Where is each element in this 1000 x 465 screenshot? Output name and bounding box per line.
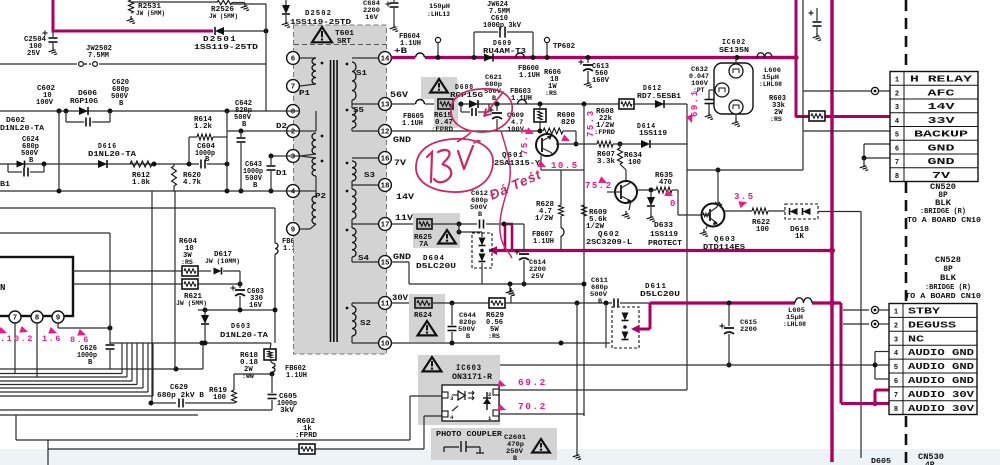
ground under R2531 [130,16,132,20]
svg-text:BLK: BLK [935,199,951,208]
svg-text:1: 1 [895,77,899,85]
svg-text:25V: 25V [531,273,545,281]
wire x=584 long vertical [583,104,585,416]
svg-text:JW (5MM): JW (5MM) [176,300,207,307]
capacitor C605 [271,374,273,393]
svg-text:820: 820 [561,119,575,127]
svg-text:5: 5 [895,132,899,140]
resistor R2531 (jumper) [129,0,134,13]
svg-text:JW (5MM): JW (5MM) [209,13,238,20]
svg-text:8.6: 8.6 [70,335,90,345]
svg-text:GND: GND [393,253,411,262]
photocoupler IC603 body [442,385,499,421]
pin 12 [379,125,392,138]
svg-text:T601: T601 [335,30,355,38]
svg-text:14V: 14V [928,101,956,112]
svg-text:B: B [466,333,470,341]
svg-text::LHL13: :LHL13 [427,11,450,19]
wire rail y=111 (D602 net to transformer pin 8) [0,110,286,112]
svg-text:69.2: 69.2 [518,377,547,388]
svg-text:S2: S2 [360,320,372,328]
wire rail y=233 [0,232,110,234]
svg-text:D2501: D2501 [203,36,237,44]
svg-text:TP602: TP602 [553,43,575,51]
warning triangle IC603 [423,357,442,371]
terminal DEGUSS [843,323,869,325]
svg-text:9: 9 [291,227,295,235]
open test terminal near FB604 [435,37,440,42]
gray box R615 [434,97,458,128]
wire rail y=131 (D2 winding net to pin 2) [227,130,286,132]
svg-text:CN528: CN528 [935,256,961,265]
GND rail y=131 from pin 12 [392,130,541,132]
capacitor C2504 [42,32,47,34]
capacitor C614 [514,251,519,253]
svg-text:AUDIO 30V: AUDIO 30V [908,403,975,414]
ground at R2526 [244,3,246,7]
gray box IC603 [418,355,500,425]
svg-text::LHL08: :LHL08 [783,321,806,328]
inductor FB607 [561,228,564,236]
svg-text:Q602: Q602 [598,231,620,239]
diode pair D611 [605,303,607,348]
svg-text:2: 2 [894,322,898,330]
warning triangle in T601 [312,27,332,42]
handwritten arrow inside lasso [484,92,503,116]
svg-text:1SS119: 1SS119 [650,231,678,239]
connector CN520 table [890,72,978,182]
wire rail y=208 [0,207,275,209]
annotation flags under IC pins [0,327,8,337]
svg-text:P2: P2 [315,193,327,201]
svg-text:B: B [598,298,602,306]
ground stub above 30V rail [510,296,512,303]
svg-text:1.1UH: 1.1UH [533,238,554,246]
resistor R624 fusible [415,298,432,308]
56V rail wire y=104 [392,103,416,105]
svg-text:Q603: Q603 [714,236,736,244]
inductor FB602 [272,363,275,372]
annotation 10.5 [537,160,547,170]
svg-text:AUDIO GND: AUDIO GND [908,361,975,372]
svg-text:2: 2 [895,90,899,98]
wire rail y=191 (B1 net, to transformer pin 4) [0,190,286,192]
svg-text:7: 7 [895,159,899,167]
magenta vertical x=832 (main protect rail) [830,0,833,462]
11V rail wire y=224 [392,223,418,225]
resistor R604 [73,270,182,272]
transformer T601 body [294,25,387,354]
warning triangle R624 [418,321,437,335]
gray box PHOTO COUPLER [431,428,557,460]
wire from R635 down to Q603 base [677,190,679,215]
wire x=861 vertical to bottom [860,212,862,459]
resistor R614 with C604 parallel bracket [189,136,197,138]
R628 column x=561 [560,170,562,205]
pin 9 of left IC [52,311,64,323]
wire R625 to C612 [432,223,477,225]
annotation 70.2 [497,404,507,414]
pin 6 [287,52,300,65]
wire rail y=343 (to D603 area) [110,342,271,344]
svg-text:8: 8 [291,109,296,117]
wire y=374 R619 top to FB602 column [234,373,272,375]
wire rail y=415 [0,414,198,416]
svg-text:1.1UH: 1.1UH [286,372,307,380]
svg-text:13: 13 [381,102,390,110]
capacitor C621 bracket under D608 [460,104,462,112]
pin 10 [379,337,392,350]
svg-text:S1: S1 [356,70,368,78]
svg-text:S5: S5 [353,107,365,115]
terminal STBY [843,309,869,311]
resistor R602 [299,444,315,454]
resistor R608 box on 56V rail [619,99,634,109]
svg-text:B: B [242,121,247,129]
svg-text:D2502: D2502 [305,10,332,18]
svg-text:4: 4 [895,118,899,126]
svg-text:2200: 2200 [740,326,757,334]
svg-text:B: B [513,455,517,463]
pin 18 [379,179,392,192]
wire vertical x=266 to pin8 rail [265,31,267,111]
svg-text:8: 8 [895,173,899,181]
wire y=190 R635 rail [636,189,656,191]
pin 3 [287,150,300,163]
secondary S1 [352,57,379,59]
pin 11 [379,297,392,310]
capacitor C644 [451,303,453,325]
wire D2501 cathode to junction [224,30,266,32]
wire D618 to x=861 vertical [818,211,861,213]
svg-text:8: 8 [894,406,898,414]
wire BACKUP horizontal y=170 [687,169,803,171]
svg-text:D602: D602 [6,117,25,125]
wire rail y=440 bottom-left [15,415,17,440]
wire vertical x=152 [151,191,153,403]
svg-text:B: B [478,211,482,219]
svg-text:D603: D603 [231,323,251,331]
svg-text:AUDIO GND: AUDIO GND [908,375,975,386]
svg-text:BLK: BLK [940,274,956,283]
wire vertical x=59 [58,111,60,191]
svg-text:D1NL20-TA: D1NL20-TA [0,125,45,133]
handwritten tail to Da Test [500,131,512,258]
diode D2502 [285,0,287,6]
transistor Q603 digital [702,204,725,227]
annotation 0 [664,189,674,199]
magenta riser x=505/512 to C612 node [504,224,507,251]
svg-text:B: B [253,182,258,190]
wire x=687 long vertical [686,104,688,390]
svg-text:2SC3209-L: 2SC3209-L [586,239,632,247]
capacitor C624 bracket [7,164,9,172]
svg-text:3kV: 3kV [280,407,295,415]
svg-text:3.5: 3.5 [734,192,755,202]
svg-text:RGP10G: RGP10G [70,98,98,106]
svg-text:D616: D616 [98,143,117,151]
winding D1 [300,156,316,158]
wire bus bundle lower-left [0,373,122,375]
svg-text:TO A BOARD CN10: TO A BOARD CN10 [905,293,981,301]
thin vertical x=803 AFC feed [802,0,804,131]
svg-text:4.7k: 4.7k [183,179,202,187]
annotation 69.2 [497,380,507,390]
svg-text:1/2W: 1/2W [586,223,605,231]
svg-text:GND: GND [928,142,956,153]
svg-text:7V: 7V [932,170,951,181]
Q602 emitter to ground [629,201,631,210]
svg-text:P1: P1 [299,90,311,98]
svg-text:6: 6 [291,56,296,64]
svg-text:4P: 4P [925,461,935,465]
svg-text:7.5MM: 7.5MM [88,52,109,60]
svg-text:B: B [119,100,124,108]
wire x=584 corner at pin1 [583,414,585,416]
capacitor C604 [200,160,202,169]
svg-text:1SS119-25TD: 1SS119-25TD [194,44,259,52]
resistor R620 [172,166,177,186]
svg-text:1: 1 [894,309,898,317]
capacitor C612 [479,220,481,229]
junction on 56V rail x=584 [582,102,587,107]
diode D617 [198,270,211,272]
svg-text:14V: 14V [396,192,415,202]
Q603 collector to backup rail [717,204,718,207]
svg-text:9: 9 [56,315,60,323]
resistor R615 fusible [438,99,453,109]
secondary S5 [352,108,356,128]
wire R2526 to ground [232,2,245,4]
bottom board-edge tint strip [0,449,1000,465]
IC box (left, partially cut) [0,257,73,316]
svg-text:12: 12 [381,129,390,137]
Q603 emitter ground [706,224,708,229]
wire pin 3 net with C643 [271,155,286,157]
pin 7 of left IC [9,311,21,323]
svg-text::PT: :PT [693,87,705,94]
svg-text:70.2: 70.2 [518,401,547,412]
svg-text:11V: 11V [395,213,414,223]
svg-text:NC: NC [908,333,925,344]
svg-text:4: 4 [894,350,898,358]
svg-text:JW (10MM): JW (10MM) [205,258,240,265]
svg-text:1/2W: 1/2W [535,215,554,223]
svg-text:14: 14 [381,56,390,64]
svg-text:SE135N: SE135N [719,47,749,55]
pin 13 [379,98,392,111]
inductor FB601 on vertical x=275 [274,208,276,243]
svg-text:D606: D606 [78,90,97,98]
svg-text:16V: 16V [249,302,263,310]
svg-text:6: 6 [895,145,899,153]
wire AFC row [803,90,890,92]
svg-text:160V: 160V [592,77,610,85]
Q601 emitter to y=170 wire [540,156,542,170]
winding P2 [300,228,310,230]
svg-text:5: 5 [894,364,898,372]
svg-text::RS: :RS [770,116,782,123]
photocoupler LED [452,394,458,396]
svg-text:100: 100 [628,159,641,167]
svg-text:15: 15 [381,260,390,268]
wire y=310 D603 anode rail [198,309,275,311]
svg-text:AFC: AFC [928,87,956,98]
resistor R625 fusible [417,219,432,229]
pin 16 [379,152,392,165]
junction dot protect rail [829,248,835,254]
svg-text:7V: 7V [394,158,407,168]
svg-text:7A: 7A [419,241,429,249]
magenta trace from top-left to D2501 [52,0,55,31]
capacitor C2601 drawing [443,447,445,452]
svg-text:7: 7 [894,392,898,400]
resistor R606 box on x=540 [534,109,546,122]
handwritten 13V circle [416,139,493,192]
wire vertical x=174 R620 column [173,164,175,166]
capacitor C610 bracket over D609 [473,32,475,58]
diode pair D618 [785,204,818,219]
svg-text:B: B [205,156,210,164]
svg-text:16V: 16V [365,14,379,22]
capacitor C632 [709,89,715,91]
svg-text:100: 100 [213,394,226,402]
svg-text:3: 3 [291,154,296,162]
svg-text::FPRD: :FPRD [295,432,318,440]
svg-text::FPRD: :FPRD [431,126,453,133]
resistor R619 [232,390,237,403]
junction dots on B+ rail [436,55,441,60]
svg-text:470: 470 [659,179,672,187]
IC602 ground leg [735,114,737,119]
wire hop FB600 on B+ [516,53,525,58]
svg-text:1.1UH: 1.1UH [400,40,421,48]
svg-text:ON3171-R: ON3171-R [452,373,492,382]
svg-text:C629: C629 [170,384,188,392]
svg-text:IC602: IC602 [722,39,746,47]
wire R2531 to R2526 [131,1,217,3]
magenta PROTECT trace y=250.5 [489,249,832,252]
secondary S4 [352,228,356,257]
svg-text:100V: 100V [36,99,54,107]
pin 7 [287,80,300,93]
svg-text:0: 0 [670,199,677,209]
svg-text:AUDIO GND: AUDIO GND [908,347,975,358]
wire junction up to top [265,4,267,31]
svg-text::BRIDGE (R): :BRIDGE (R) [920,208,966,216]
svg-text:B1: B1 [0,181,11,189]
handwritten lasso around D608 [451,89,512,132]
svg-text:B: B [88,359,93,367]
resistor R634 [619,144,621,148]
svg-text:1.1UH: 1.1UH [519,72,540,80]
svg-text:3: 3 [894,336,898,344]
resistor R612 [130,161,152,167]
warning triangle R625 [438,230,456,244]
wire 56V rail end corner to x=687 [686,103,687,105]
phase dot P1 [321,62,324,65]
svg-text:SRT: SRT [337,38,352,46]
svg-text:7: 7 [13,315,17,323]
svg-text::FPRD: :FPRD [594,129,615,136]
wire GND rows bracket CN520 [864,143,890,145]
magenta corner into D611 [649,303,652,329]
svg-text:D612: D612 [643,85,662,93]
svg-text:1.1UH: 1.1UH [511,95,532,103]
pin 4 [287,185,300,198]
svg-text:18: 18 [381,183,390,191]
transformer core [330,60,332,342]
top right capacitor with ground [816,8,818,21]
inductor L605 [795,298,812,303]
annotation flag at 576 node [561,134,571,144]
svg-text:25V: 25V [27,50,41,58]
resistor R621 [73,283,182,285]
wire vertical x=175 from B1 area [174,191,176,369]
svg-text:75.3: 75.3 [586,109,596,137]
capacitor C615 [727,301,732,306]
svg-text:33V: 33V [928,115,956,126]
wire y=144 base rail with R607 R634 D614 [597,141,613,147]
svg-text:IC603: IC603 [456,364,482,373]
svg-text:H RELAY: H RELAY [910,74,973,85]
pin 14 [379,52,392,65]
ground stub on GND rail [509,284,511,288]
magenta vertical x=796 (33V feed) [795,0,798,118]
pin 9 [287,223,300,236]
svg-text:RD7.5ESB1: RD7.5ESB1 [637,93,682,101]
pin 15 [379,256,392,269]
svg-text:16: 16 [381,156,390,164]
svg-text:30V: 30V [392,293,409,303]
svg-text:3: 3 [895,104,899,112]
wire rail y=369 [0,368,203,370]
magenta 30V audio trace [650,301,795,304]
capacitor C626 [109,233,111,344]
svg-text:TO A BOARD CN10: TO A BOARD CN10 [907,217,981,225]
capacitor C620 bypass bracket under D606 [65,111,67,122]
diode D616 symbol [98,160,107,168]
wire R624 to R629 [432,302,489,304]
svg-text:D633: D633 [654,222,673,230]
GND wire pin15 to y=284 rail [392,261,410,263]
svg-text:8: 8 [35,315,40,323]
svg-text:D5LC20U: D5LC20U [640,291,680,299]
handwritten connector to 13V circle [457,132,471,142]
audio GND rail y=365 [500,364,875,366]
GND rail y=284 [409,283,584,285]
wire from pin 9 to C626 node [57,323,59,328]
junction x=540 on 56V rail [538,102,543,107]
svg-text::WW: :WW [242,373,254,380]
svg-text:RU4AM-T3: RU4AM-T3 [483,48,526,56]
magenta vertical x=841 to audio30V rows [840,303,843,404]
capacitor C613 [587,58,589,64]
IC602 input wire from B+ rail [735,58,737,65]
pin 8 [287,105,300,118]
pin 2 [287,125,300,138]
svg-text:1SS119: 1SS119 [639,130,667,138]
svg-text:N: N [0,283,5,293]
resistor R2526 (jumper) [217,0,232,4]
svg-text:1000p: 1000p [77,352,97,360]
annotation flag at R690 node [525,127,535,137]
pin 8 of left IC [31,311,43,323]
wire pin4 feed [424,415,442,417]
diode pair D604 [457,230,462,235]
svg-text:BACKUP: BACKUP [914,129,969,140]
svg-text::RS: :RS [181,259,193,266]
